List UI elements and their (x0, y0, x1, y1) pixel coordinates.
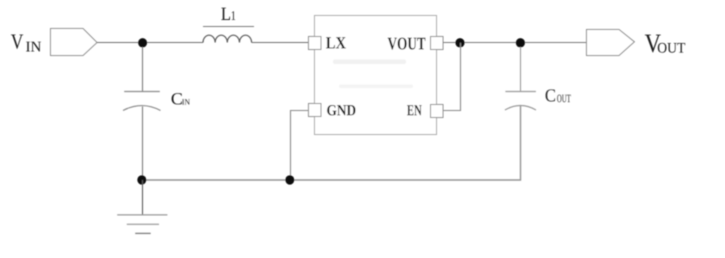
pin VOUT (388, 37, 443, 50)
capacitor C_IN (123, 92, 161, 111)
label C_OUT (546, 89, 571, 102)
pin LX (309, 37, 346, 50)
node junction dot CIN/rail (137, 175, 146, 184)
wire VOUT pin to VOUT port (443, 42, 587, 44)
wire CIN top (142, 47, 144, 92)
wire VIN to L1 (97, 42, 203, 44)
node junction dot VOUT/EN (455, 38, 464, 47)
wire rail to ground symbol (142, 180, 144, 215)
node junction dot VOUT/COUT (516, 38, 525, 47)
wire COUT bottom to ground rail (142, 106, 521, 180)
node junction dot VIN/CIN (138, 38, 147, 47)
node VOUT label (645, 35, 685, 53)
pin GND (309, 104, 356, 117)
port connector VIN (51, 29, 98, 56)
ground (117, 215, 167, 234)
inductor L1 (203, 35, 252, 42)
capacitor C_OUT (505, 92, 536, 111)
watermark smudge 2 (339, 85, 413, 89)
wire L1 to LX pin (252, 42, 308, 44)
label L1 overline (203, 26, 254, 28)
node VIN label (11, 34, 41, 51)
wire CIN bottom to ground rail (142, 107, 144, 180)
wire COUT top (520, 47, 522, 92)
IC U1 body (315, 16, 437, 135)
wire GND pin to ground rail (291, 111, 309, 181)
watermark smudge 1 (333, 60, 406, 65)
pin EN (407, 105, 443, 118)
wire EN pin to VOUT net (443, 43, 461, 111)
port connector VOUT (587, 30, 635, 56)
node junction dot GND/rail (285, 175, 294, 184)
label L1 (221, 8, 235, 20)
label C_IN (172, 93, 190, 105)
